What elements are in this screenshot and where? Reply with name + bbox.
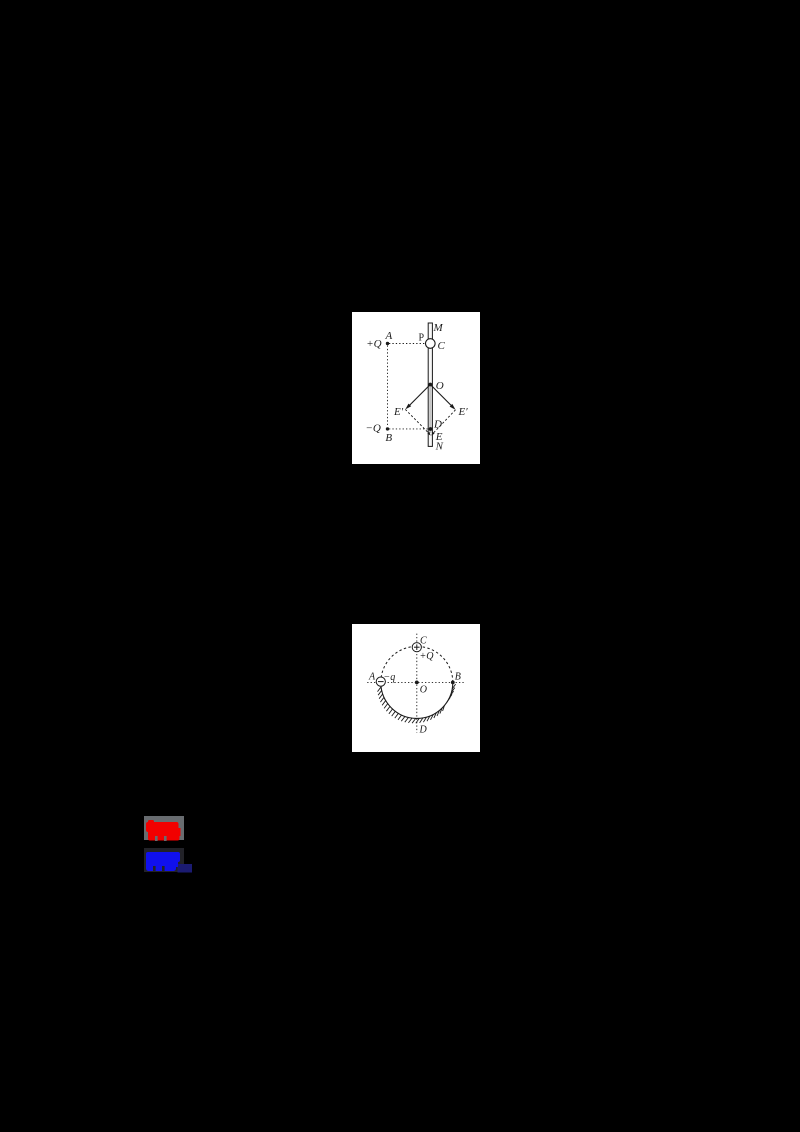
svg-text:E′: E′ [458, 406, 469, 418]
svg-text:E′: E′ [393, 406, 404, 418]
svg-text:B: B [455, 672, 461, 683]
svg-text:A: A [385, 330, 393, 342]
svg-text:M: M [433, 322, 444, 334]
svg-text:−q: −q [384, 672, 396, 683]
svg-text:P: P [419, 333, 425, 344]
svg-text:C: C [420, 636, 427, 647]
svg-text:O: O [420, 685, 427, 696]
svg-text:B: B [385, 432, 392, 444]
svg-text:N: N [435, 441, 444, 453]
svg-text:D: D [419, 725, 428, 736]
svg-text:+Q: +Q [420, 651, 435, 662]
svg-text:O: O [436, 380, 444, 392]
svg-text:+Q: +Q [366, 338, 381, 350]
svg-text:−Q: −Q [365, 423, 380, 435]
svg-text:A: A [368, 672, 376, 683]
svg-text:C: C [438, 340, 446, 352]
svg-text:D: D [433, 419, 442, 431]
